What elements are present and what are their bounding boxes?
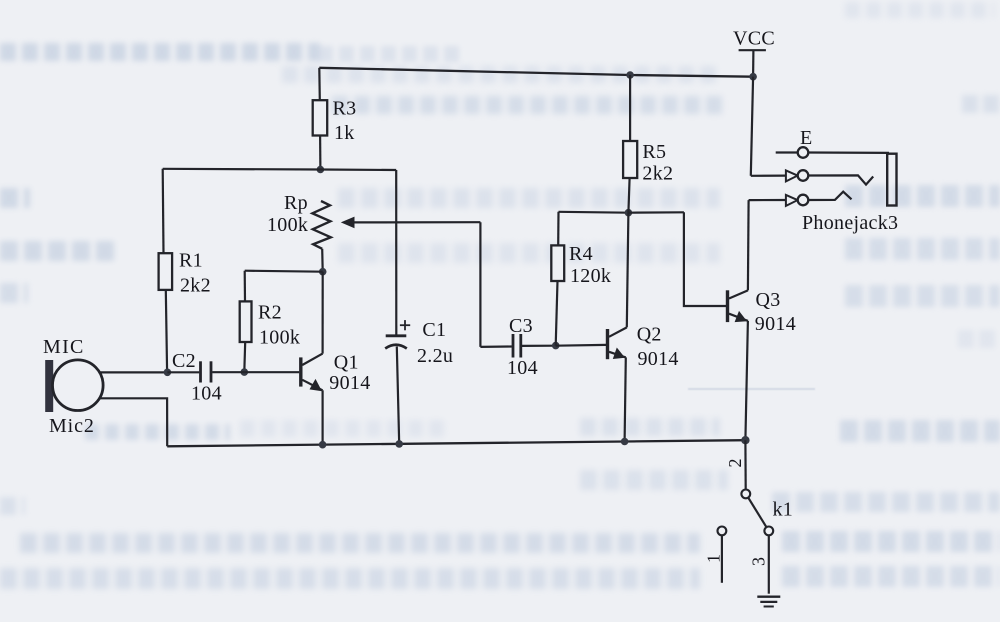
microphone Mic2 circle [53,360,104,411]
svg-text:1: 1 [704,554,724,563]
Q1 emitter diagonal [302,380,322,391]
wire phonejack row2 left [751,175,786,177]
wire bottom ground rail [167,440,745,446]
potentiometer Rp zigzag [312,201,330,249]
wire R2 bottom leg [243,342,246,372]
node C1/ground-rail junction [395,440,403,448]
wire R5 top leg [629,75,631,141]
svg-text:R1: R1 [179,250,203,272]
phonejack row3 triangle [786,195,798,206]
wire pin3 to ground [768,535,770,593]
capacitor C2 right plate [210,361,213,382]
svg-text:104: 104 [507,357,538,379]
capacitor C3 left plate [512,334,515,358]
svg-text:9014: 9014 [755,313,796,335]
wire to C3 left plate [480,345,511,348]
VCC symbol bar [739,49,766,51]
wire C2 to R2 junction [212,371,244,373]
svg-text:C2: C2 [172,350,196,372]
wire pin1 stub [721,535,723,583]
capacitor C1 plus plate [386,334,407,337]
capacitor C2 left plate [199,361,202,382]
svg-text:2: 2 [725,459,745,468]
wire Q1 collector up to junction [322,272,324,354]
svg-text:MIC: MIC [43,336,85,358]
node mic/R1/C2 junction [164,369,172,377]
svg-text:3: 3 [749,557,769,566]
wire mic top to C2 [100,371,168,373]
wire phonejack row1 left [776,151,798,153]
node R2/C2/Q1-base junction [241,368,249,376]
Q3 emitter diagonal [729,314,748,321]
wire R1 bottom leg [166,290,167,372]
svg-text:9014: 9014 [329,372,370,394]
svg-text:Q2: Q2 [637,324,662,346]
wire junction down to Q2 collector [627,213,629,328]
wire phonejack row1 right [808,151,889,154]
node Rp/R2/Q1-collector junction [319,268,327,276]
capacitor C1 curved plate [385,345,407,349]
ground bar 1 [757,596,780,598]
node Q2-emitter/rail junction [621,438,629,446]
svg-text:E: E [800,127,813,149]
svg-text:R4: R4 [569,243,593,265]
svg-text:R3: R3 [333,98,357,120]
wire R4 top leg [557,212,559,246]
Q3 collector diagonal [729,290,748,298]
resistor R1 [159,253,173,290]
Q2 emitter arrowhead [613,348,625,360]
wire rail down to switch pole [744,440,746,489]
capacitor C3 right plate [519,334,522,358]
ground bar 2 [760,601,777,603]
node Q1-emitter/rail junction [319,441,327,449]
resistor R5 [623,141,637,178]
svg-text:VCC: VCC [733,28,775,50]
node VCC/rail junction [749,73,757,81]
wire phonejack row2 right with notch [808,175,873,184]
svg-text:120k: 120k [570,265,611,287]
svg-text:Q3: Q3 [756,289,781,311]
wire wiper down to C3 [479,222,481,347]
Q1 emitter arrowhead [310,379,323,391]
node C3/R4/Q2-base junction [552,342,560,350]
Q3 emitter arrowhead [735,311,747,322]
wire R3 bottom leg [319,136,321,171]
svg-text:2k2: 2k2 [642,163,673,185]
phonejack contact 2 circle [798,170,809,181]
svg-text:Rp: Rp [284,192,308,214]
phonejack contact 3 circle [798,195,809,206]
svg-text:Q1: Q1 [334,352,359,374]
switch pole circle [741,490,750,499]
wire phonejack row3 right with notch [808,192,851,200]
wire R4 top to R5 bottom junction [559,211,629,214]
wire R3 top leg [318,68,321,101]
microphone element bar [45,360,53,412]
svg-text:100k: 100k [259,327,300,349]
Q2 collector diagonal [609,327,627,336]
ground bar 3 [764,606,774,608]
Q2 emitter diagonal [609,352,626,358]
transistor Q3 base bar [726,290,729,322]
wire mic bottom to rail [99,398,167,446]
svg-text:1k: 1k [334,122,355,144]
wire junction to R1 top [163,168,321,171]
wire R2 top leg [244,271,247,302]
wire phonejack row3 left [749,199,786,201]
svg-text:2.2u: 2.2u [417,345,453,367]
wire R1 top leg [162,169,165,253]
C1 plus sign horizontal [400,324,410,326]
svg-text:C3: C3 [509,315,533,337]
wire C1 bottom leg [397,347,399,444]
wire VCC down to phonejack row2 [751,77,753,176]
transistor Q1 base bar [299,357,302,386]
wire Q2 emitter down to rail [625,357,626,441]
wire junction to C2 left plate [167,371,199,373]
svg-text:100k: 100k [267,214,308,236]
wire Rp wiper horizontal [352,221,480,223]
arrowhead Rp wiper [341,217,355,229]
wire Q3 collector up to phonejack [747,200,750,290]
Q1 collector diagonal [302,354,322,365]
resistor R2 [240,301,252,342]
resistor R3 [313,100,328,135]
wire R5 bottom leg [628,178,629,213]
phonejack row2 triangle [786,170,798,181]
svg-text:C1: C1 [422,319,446,341]
faint rule bleed line [688,388,815,390]
wire junction to R2 top [245,271,323,272]
wire Rp bottom leg [321,249,324,272]
C1 plus sign vertical [404,320,406,330]
svg-text:2k2: 2k2 [180,275,211,297]
svg-text:Phonejack3: Phonejack3 [802,212,898,234]
transistor Q2 base bar [606,329,609,359]
node VCC-rail/R5 junction [626,71,634,79]
switch throw circle pin3 [764,527,773,536]
node R5/Q2-collector/Q3-feed junction [625,209,633,217]
svg-text:k1: k1 [773,499,794,521]
wire R4 bottom leg [556,281,558,346]
phonejack body [887,154,896,206]
wire junction to Q2 base [556,344,606,347]
wire C1 top leg [395,170,397,335]
svg-text:R5: R5 [642,141,666,163]
wire Q1 emitter down to rail [322,390,324,444]
wire junction to C1 top [320,168,396,171]
svg-text:9014: 9014 [638,348,679,370]
wire C3 to junction [522,345,556,347]
phonejack contact E circle [798,147,809,158]
wire VCC bar to rail [752,50,755,76]
node Q3-emitter/rail/switch junction [741,436,749,444]
svg-text:Mic2: Mic2 [49,415,95,437]
node R3/Rp junction [317,166,325,174]
resistor R4 [551,245,564,281]
wire top VCC rail [319,68,753,77]
wire junction to Q3 feed [628,211,684,214]
switch k1 arm [748,498,766,528]
svg-text:R2: R2 [258,302,282,324]
wire Q3 emitter down to rail [745,321,748,440]
switch throw circle pin1 [718,527,727,536]
wire to Q1 base [244,371,299,373]
wire feed to Q3 base [684,212,726,306]
svg-text:104: 104 [191,383,222,405]
